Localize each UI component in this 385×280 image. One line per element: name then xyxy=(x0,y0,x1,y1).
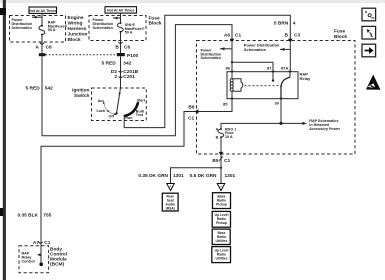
svg-text:A6: A6 xyxy=(224,33,230,39)
wire label 0.35 BLK 755 xyxy=(17,213,51,219)
junction node at 86 branch xyxy=(231,61,233,63)
svg-text:Block: Block xyxy=(149,21,162,27)
label: Hot At All Times (right) xyxy=(105,7,137,13)
svg-text:C201B: C201B xyxy=(123,69,138,75)
terminal arrow A (right) xyxy=(217,184,225,191)
icon: schematic link 1 (top right) xyxy=(362,8,376,21)
connector label B C6 xyxy=(115,42,130,51)
border connector A6 (black) xyxy=(230,39,235,43)
wire: branch to Rear Seat Audio xyxy=(171,168,222,184)
svg-text:B6: B6 xyxy=(188,105,194,111)
wire: branch down to radio boxes xyxy=(220,168,222,184)
relay coil xyxy=(230,72,233,99)
svg-text:A: A xyxy=(220,184,222,188)
text: Power Distribution Schematics (inside fuse block, right) xyxy=(244,43,280,53)
text: Bulb Test xyxy=(136,109,145,117)
relay contact 87 stub xyxy=(272,72,274,82)
scan blob left edge lower xyxy=(0,208,3,216)
svg-text:A: A xyxy=(35,45,39,51)
text: Body Control Module (BCM) xyxy=(50,246,67,267)
connector label D2 C201B xyxy=(111,69,139,75)
box: Rear Seat Audio (RSA) xyxy=(162,193,178,211)
dashed box: Engine Wiring Harness Junction Block xyxy=(10,16,66,43)
text: Fuse Block (large box label) xyxy=(334,29,347,40)
svg-text:0.35 BLK: 0.35 BLK xyxy=(17,213,38,219)
arrow: RAP Schematics in Retained Accessory Power xyxy=(281,119,341,131)
svg-text:C1: C1 xyxy=(224,158,230,164)
wire: junction to RDO fuse xyxy=(221,123,281,128)
junction node pin30 wire xyxy=(279,122,282,125)
svg-text:A: A xyxy=(169,184,171,188)
svg-text:Pickup: Pickup xyxy=(216,221,227,225)
border connector B6 C1 (black) xyxy=(194,109,198,114)
text: Power Distribution Schematics (inside fuse block, left) xyxy=(201,48,222,60)
wire label 0.35 DK GRN 1301 xyxy=(138,173,184,179)
svg-text:Accessory Power: Accessory Power xyxy=(309,127,340,131)
svg-text:B5: B5 xyxy=(212,158,218,164)
fuse RAP MaxiFuse 50 A xyxy=(39,21,68,36)
pin arrowhead 87A xyxy=(288,71,291,74)
svg-text:5 RED: 5 RED xyxy=(26,85,41,91)
text: Engine Wiring Harness Junction Block xyxy=(68,15,88,43)
wire: A6 down to relay pin 86 with branch to 87 xyxy=(231,42,233,71)
dashed box: Fuse Block (large right) xyxy=(197,41,356,155)
arrow to RAP Relay Control xyxy=(37,254,41,257)
connector label A6 C1 xyxy=(224,33,242,39)
text: RAP Relay xyxy=(300,71,311,81)
svg-text:Switch: Switch xyxy=(74,93,90,99)
wire label 5 RED 342 xyxy=(102,61,132,67)
svg-text:50 A: 50 A xyxy=(48,28,56,32)
svg-text:(RSA): (RSA) xyxy=(166,207,175,211)
svg-text:Harness: Harness xyxy=(68,26,87,32)
text: RAP Relay Control xyxy=(22,252,35,264)
svg-text:Schematics: Schematics xyxy=(244,47,267,52)
svg-text:Pickup: Pickup xyxy=(216,202,227,206)
connector label 2 C201 xyxy=(114,74,135,80)
svg-text:Hot At All Times: Hot At All Times xyxy=(107,9,134,13)
svg-text:85: 85 xyxy=(223,101,228,106)
icon: schematic link 2 xyxy=(362,26,376,39)
svg-text:(BCM): (BCM) xyxy=(50,261,65,267)
svg-text:Run: Run xyxy=(125,116,133,120)
svg-text:342: 342 xyxy=(123,61,131,67)
wire label 5 RED 542 xyxy=(26,85,54,91)
svg-text:Ignition: Ignition xyxy=(72,88,89,94)
arrow to Power Distribution Schematics (box1) xyxy=(32,16,42,19)
svg-text:10 A: 10 A xyxy=(225,135,233,139)
switch position arc Run-Start (thick) xyxy=(124,103,138,116)
fuse IGN E MaxiFuse 50 A xyxy=(117,22,144,35)
scan border top band xyxy=(0,0,385,3)
svg-text:Wiring: Wiring xyxy=(68,21,83,27)
label: Hot At All Times (left) xyxy=(29,7,57,13)
pin arrowhead 30 exit xyxy=(279,98,282,101)
wire: ignition Run output to B C3 (5 BRN 4) xyxy=(124,15,290,127)
text: Power Distribution Schematics (box2) xyxy=(93,18,114,30)
arrow to Power Distribution Schematics (box2) xyxy=(113,17,121,20)
svg-text:B: B xyxy=(285,33,289,39)
svg-text:C1: C1 xyxy=(188,116,194,122)
dashed box: Fuse Block (small, top) xyxy=(89,16,146,41)
wire: relay pin 30 to junction xyxy=(280,99,282,124)
svg-text:Block: Block xyxy=(68,37,81,43)
wire: P100 down to ignition switch xyxy=(120,56,122,88)
wire: battery stub into RAP MaxiFuse xyxy=(41,13,43,25)
svg-text:Off: Off xyxy=(109,114,115,118)
svg-text:A: A xyxy=(216,128,219,132)
icon: cursor triangle xyxy=(366,75,381,90)
svg-text:Schematics: Schematics xyxy=(201,56,222,60)
border connector B5 C1 (black) xyxy=(219,152,224,156)
wire: relay pin 85 to B6 C1 and BCM xyxy=(41,99,232,241)
svg-text:Utilities: Utilities xyxy=(216,239,228,243)
wire: fuse to connector B C6 xyxy=(120,32,122,54)
wire: B C3 down to relay pin 87A xyxy=(289,42,291,71)
svg-text:5 RED: 5 RED xyxy=(102,61,117,67)
fuse RDO 1 Fuse 10 A xyxy=(216,127,237,139)
svg-text:C3: C3 xyxy=(294,33,300,39)
svg-text:C201: C201 xyxy=(123,74,135,80)
switch contact Acc xyxy=(98,99,105,104)
relay contact arm 30 to 87A xyxy=(280,72,290,99)
switch contact sweep path xyxy=(104,103,115,114)
text: Power Distribution Schematics (box1) xyxy=(12,18,33,30)
wire label 0.5 DK GRN 1301 xyxy=(190,173,236,179)
connector label A C6 xyxy=(35,43,52,51)
svg-text:C6: C6 xyxy=(124,44,130,50)
svg-text:B: B xyxy=(115,44,119,50)
svg-text:755: 755 xyxy=(43,213,51,219)
svg-text:0.5 DK GRN: 0.5 DK GRN xyxy=(190,173,217,179)
inline connector (A side, black) xyxy=(39,53,46,56)
svg-text:Junction: Junction xyxy=(68,31,88,37)
connector label B5 C1 xyxy=(212,156,230,164)
svg-text:P100: P100 xyxy=(127,53,139,59)
svg-text:2: 2 xyxy=(114,74,117,80)
terminal arrow A (left) xyxy=(167,184,175,191)
scan blob left edge top xyxy=(0,8,6,15)
wire into BCM terminal xyxy=(40,241,42,264)
icon: arrow right xyxy=(362,44,376,57)
svg-text:Schematics: Schematics xyxy=(12,26,33,30)
switch contact Lock xyxy=(97,109,109,113)
wire: RAP maxifuse feed down left side xyxy=(42,25,232,136)
box: Up Level Radio Pickup xyxy=(212,211,230,227)
svg-text:Schematics: Schematics xyxy=(93,26,114,30)
svg-text:Fuse: Fuse xyxy=(149,15,161,21)
switch contact Run xyxy=(123,115,133,120)
text: Ignition Switch xyxy=(72,88,89,99)
switch contact Start xyxy=(137,99,146,104)
svg-text:542: 542 xyxy=(45,85,53,91)
svg-text:86: 86 xyxy=(226,66,231,71)
wire: battery stub into IGN E MaxiFuse xyxy=(120,13,122,23)
arrow from B C3 wire to schematics text xyxy=(280,48,290,51)
pin arrowhead 85 exit xyxy=(230,98,233,101)
ignition switch wiper feed xyxy=(115,88,120,115)
svg-text:Test: Test xyxy=(136,113,144,117)
junction node at B5 branch xyxy=(220,167,222,169)
wire: fuse to connector A C6 xyxy=(41,35,43,54)
svg-text:30: 30 xyxy=(275,101,280,106)
relay coil parallel branch xyxy=(232,79,243,91)
box: Base Radio Pickup xyxy=(213,193,231,209)
wire branch 86-node to pin 87 xyxy=(232,62,273,71)
pin arrowhead 86 xyxy=(230,71,233,74)
svg-text:50 A: 50 A xyxy=(125,31,133,35)
svg-text:Engine: Engine xyxy=(68,15,84,21)
svg-text:Hot At All Times: Hot At All Times xyxy=(29,9,56,13)
relay box RAP Relay xyxy=(227,72,298,99)
box: Up Level Radio Utilities xyxy=(212,247,231,263)
svg-text:Utilities: Utilities xyxy=(216,256,228,260)
dashed box: ignition switch xyxy=(92,88,147,121)
switch contact Off xyxy=(109,113,116,118)
svg-text:D2: D2 xyxy=(111,69,117,75)
svg-text:Relay: Relay xyxy=(300,76,311,81)
svg-text:4: 4 xyxy=(293,21,296,27)
svg-text:1301: 1301 xyxy=(173,173,184,179)
connector label A7 C1 xyxy=(33,240,51,246)
scan border left black bar xyxy=(3,0,6,280)
svg-text:87A: 87A xyxy=(281,66,288,71)
svg-text:1301: 1301 xyxy=(225,173,236,179)
svg-text:0.35 DK GRN: 0.35 DK GRN xyxy=(138,173,168,179)
svg-text:B: B xyxy=(216,136,219,140)
box: Base Radio Utilities xyxy=(212,229,230,244)
relay mechanical link (dashed) xyxy=(245,85,279,87)
inline connector P100 (black) xyxy=(117,53,139,59)
wire: RDO fuse to B5 C1 xyxy=(220,137,222,168)
svg-text:5 BRN: 5 BRN xyxy=(274,21,289,27)
svg-text:Fuse: Fuse xyxy=(334,29,346,35)
svg-text:Block: Block xyxy=(334,34,347,40)
svg-text:Control: Control xyxy=(22,260,35,264)
text: Fuse Block (small box label) xyxy=(149,15,162,26)
svg-text:87: 87 xyxy=(267,66,272,71)
BCM terminal dot xyxy=(39,263,43,267)
dotted pairing line to P100 xyxy=(46,54,118,56)
svg-text:Lock: Lock xyxy=(97,109,107,113)
connector label B C3 xyxy=(285,33,301,39)
dashed box: Body Control Module xyxy=(19,246,49,273)
svg-text:C1: C1 xyxy=(235,33,241,39)
svg-text:C6: C6 xyxy=(46,45,52,51)
border connector B C3 (black) xyxy=(288,39,293,43)
arrow from A6 wire to schematics text xyxy=(220,47,232,50)
pin arrowhead 87 xyxy=(271,71,274,74)
wire label 5 BRN 4 xyxy=(274,21,296,27)
